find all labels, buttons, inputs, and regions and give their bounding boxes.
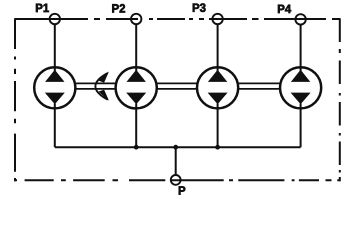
junction P-drop-manifold	[173, 145, 178, 150]
label P	[179, 186, 185, 194]
pump U1 triangle up	[45, 70, 64, 82]
pump U3 triangle down	[208, 93, 228, 105]
shaft pump3-pump4	[238, 83, 280, 89]
port P4 circle	[295, 14, 305, 24]
wire P3 riser	[217, 24, 219, 71]
junction pump2-manifold	[134, 145, 139, 150]
pump U4 triangle down	[291, 93, 311, 105]
port P1 circle	[50, 14, 60, 24]
wire pump1 outlet down	[54, 104, 56, 148]
wire common manifold	[55, 146, 301, 148]
enclosure right border (dash-dot)	[339, 18, 341, 181]
wire pump3 outlet down	[217, 104, 219, 148]
label P1	[36, 4, 49, 12]
wire pump4 outlet down	[300, 104, 302, 148]
pump U3 circle	[197, 67, 238, 108]
wire P1 riser	[54, 24, 56, 71]
pump U1 circle	[34, 67, 75, 108]
wire pump2 outlet down	[135, 104, 137, 148]
wire P port drop	[175, 147, 177, 175]
label P3	[193, 3, 206, 12]
port P3 circle	[212, 14, 222, 24]
pump U4 circle	[280, 67, 321, 108]
port P circle	[171, 175, 181, 185]
pump U2 triangle down	[126, 93, 146, 105]
enclosure left border (dash-dot)	[14, 18, 16, 181]
pump U1 triangle down	[45, 93, 65, 105]
enclosure top border (dash-dot)	[15, 18, 340, 20]
pump U2 triangle up	[127, 70, 146, 82]
wire P4 riser	[300, 24, 302, 71]
shaft pump2-pump3	[157, 83, 198, 89]
wire P2 riser	[135, 24, 137, 71]
pump U2 circle	[116, 67, 157, 108]
label P2	[112, 4, 125, 12]
label P4	[278, 5, 291, 13]
junction pump3-manifold	[215, 145, 220, 150]
rotation arrow head top	[99, 71, 110, 82]
port P2 circle	[131, 14, 141, 24]
enclosure bottom border (dash-dot)	[14, 179, 340, 181]
rotation arrow arc	[95, 73, 107, 100]
pump U4 triangle up	[291, 70, 310, 82]
rotation arrow head bottom	[99, 90, 110, 101]
pump U3 triangle up	[208, 70, 227, 82]
shaft pump1-pump2	[75, 83, 116, 89]
